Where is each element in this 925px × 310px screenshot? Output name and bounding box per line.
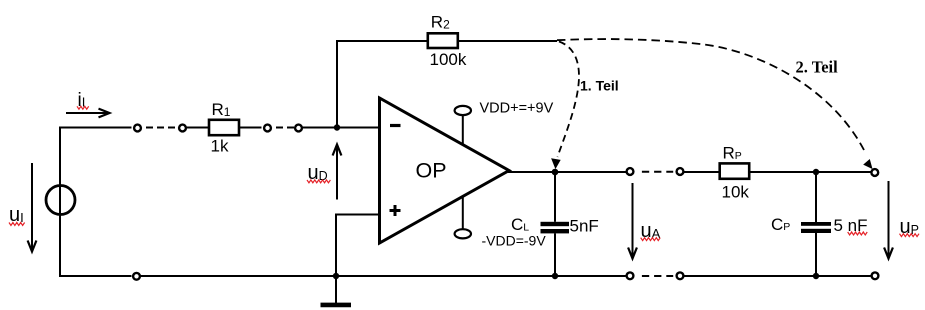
wire CP lower lead (815, 233, 817, 276)
power VDD+ terminal (455, 101, 554, 145)
wire feedback vertical (336, 41, 338, 128)
annotation 1. Teil dashed arrow (552, 42, 619, 169)
junction output node (552, 169, 559, 176)
node input terminal 3 (264, 125, 271, 132)
svg-text:5nF: 5nF (570, 216, 599, 235)
svg-text:2. Teil: 2. Teil (796, 58, 839, 77)
wire CL upper lead (554, 172, 556, 222)
ground (321, 276, 352, 305)
wire plus input L-shape (336, 215, 380, 277)
node output terminal 5 (627, 168, 634, 175)
op-amp plus input label (390, 205, 401, 216)
resistor R1 (209, 100, 239, 156)
wire dashed segment before inverting node (276, 127, 294, 129)
node bottom terminal 3 (677, 272, 684, 279)
label uD voltage arrow (307, 145, 341, 200)
node bottom terminal right (872, 272, 879, 279)
wire RP to right terminal (749, 171, 871, 173)
wire CP upper lead (815, 172, 817, 222)
wire top input segment 1 (59, 127, 132, 129)
annotation 2. Teil dashed arrow (557, 39, 872, 168)
wire feedback horizontal to R2 (336, 40, 428, 42)
node bottom terminal left (133, 273, 140, 280)
node uP top terminal (871, 169, 878, 176)
label uP voltage arrow (884, 181, 919, 259)
wire R1 to terminal (239, 127, 262, 129)
label uA voltage arrow (628, 183, 661, 259)
svg-text:VDD+=+9V: VDD+=+9V (480, 101, 554, 117)
op-amp minus input label (390, 124, 401, 127)
current source Q (input source) (46, 186, 75, 215)
wire dashed bottom segment (642, 275, 673, 277)
svg-text:1k: 1k (211, 137, 229, 156)
wire R2 to dashed branch point (458, 40, 557, 42)
resistor RP (720, 144, 750, 202)
node bottom terminal 2 (627, 272, 634, 279)
wire bottom rail middle (141, 275, 626, 277)
node output terminal 6 (677, 168, 684, 175)
junction CP bottom node (813, 273, 819, 279)
wire terminal to op-amp minus input (303, 127, 380, 129)
node input terminal 4 (295, 125, 302, 132)
wire to R1 (187, 127, 210, 129)
svg-text:1. Teil: 1. Teil (580, 78, 619, 94)
wire op-amp output (508, 171, 626, 173)
spellcheck squiggle under nF (848, 232, 868, 235)
wire left rail (59, 128, 61, 277)
capacitor CP (771, 215, 868, 235)
junction inverting input node (334, 124, 340, 130)
node input terminal 2 (179, 125, 186, 132)
wire bottom rail left (59, 275, 132, 277)
node input terminal 1 (134, 125, 141, 132)
junction ground node (333, 273, 339, 279)
resistor R2 (428, 12, 467, 69)
label iI current arrow (66, 90, 110, 117)
junction CL bottom node (552, 273, 558, 279)
svg-text:OP: OP (416, 159, 447, 183)
wire dashed output segment (642, 171, 673, 173)
wire dashed input segment (146, 127, 175, 129)
svg-text:100k: 100k (430, 50, 467, 69)
label uI voltage arrow (9, 163, 36, 252)
svg-text:-VDD=-9V: -VDD=-9V (482, 232, 547, 248)
op-amp U1 (380, 98, 510, 243)
wire terminal to RP (684, 171, 720, 173)
svg-text:10k: 10k (722, 183, 750, 202)
junction RP output node (813, 169, 819, 175)
capacitor CL (511, 215, 599, 235)
wire CL lower lead (554, 233, 556, 276)
power -VDD terminal (455, 197, 547, 249)
svg-text:5 nF: 5 nF (834, 216, 868, 235)
wire bottom rail right (684, 275, 871, 277)
